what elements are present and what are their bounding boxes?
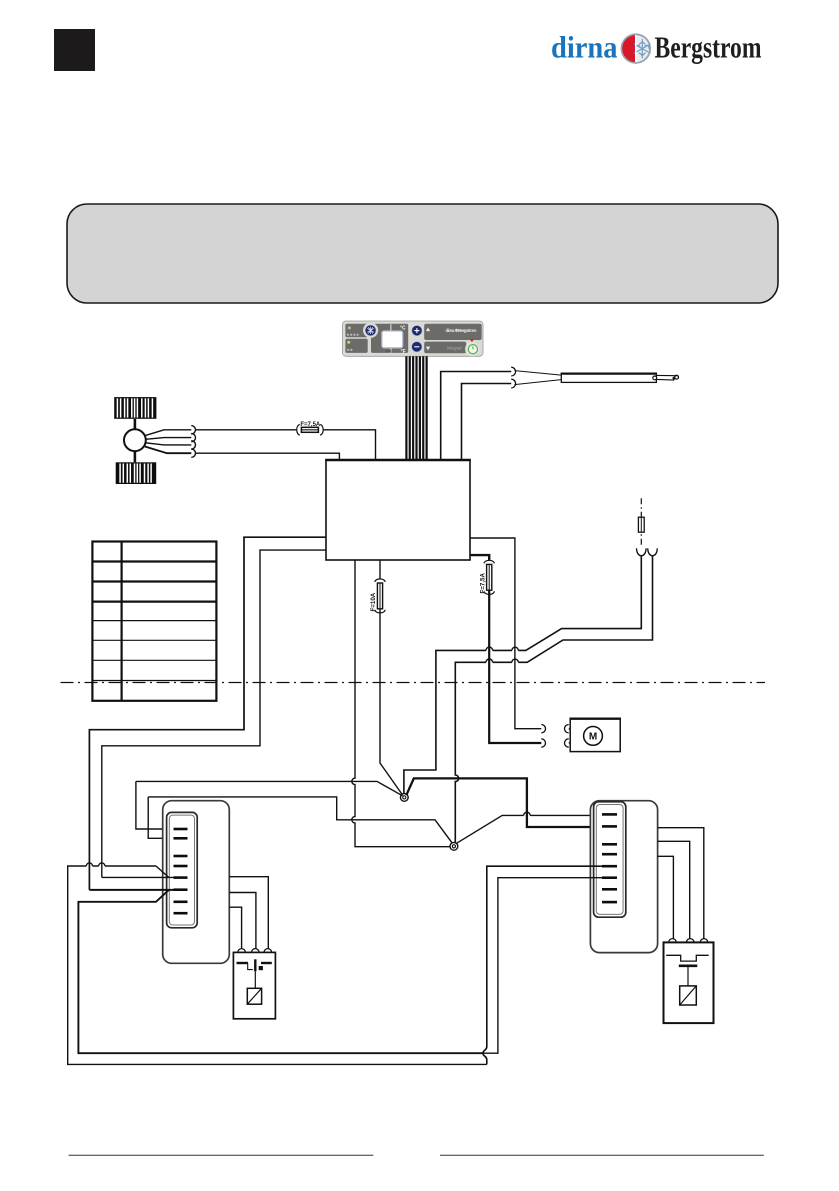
svg-text:M: M: [589, 732, 597, 743]
svg-text:°C: °C: [400, 326, 406, 332]
svg-text:dirna ❄Bergstrom: dirna ❄Bergstrom: [446, 328, 477, 333]
wire unit-right to motor1: [470, 538, 541, 729]
pins X1: [174, 829, 188, 913]
wire ground bus outer: [68, 866, 487, 1064]
svg-text:dirna: dirna: [551, 30, 618, 65]
pins X2: [602, 814, 617, 902]
wire unit-left B: [102, 550, 326, 877]
wire panel bundle: [406, 356, 426, 460]
wire battery2 to node B: [455, 556, 652, 842]
connector motor2: [541, 739, 568, 747]
wire left to node A: [136, 781, 403, 795]
page number box: [54, 29, 95, 71]
wire unit-bottom to node B: [352, 560, 450, 847]
node A: [400, 794, 408, 802]
wire X1 pin5: [102, 876, 174, 878]
wire X2 to K2 c2: [658, 841, 690, 938]
blower motor circle: [134, 419, 137, 430]
wire X2 to K2 c1: [658, 856, 674, 938]
wire X1 to K1 c1: [229, 907, 241, 949]
wire fan3 stub: [146, 443, 192, 445]
battery supply line: [640, 498, 642, 547]
wire X1 to K1 c3: [229, 877, 268, 949]
svg-text:Integral: Integral: [447, 346, 463, 352]
fuse F3 F=7,5A: [479, 560, 494, 594]
svg-text:F=7,5A: F=7,5A: [479, 573, 486, 594]
wire probe1: [441, 372, 512, 461]
connector motor1: [541, 725, 568, 733]
motor M: [570, 719, 621, 752]
chassis dash-dot line: [61, 682, 766, 684]
blower resistor bottom: [116, 462, 157, 484]
wire node A to right block pin2: [406, 778, 603, 827]
wire left to node B: [148, 797, 452, 843]
fuse F2 F=10A: [379, 560, 381, 579]
fuse F4: [638, 517, 644, 532]
wire X1 to K1 c2: [229, 893, 256, 949]
logo circle: [622, 34, 651, 63]
svg-text:F=7,5A: F=7,5A: [300, 422, 321, 428]
footer rule left: [69, 1154, 374, 1156]
wire unit-right to fuse F3: [470, 555, 489, 560]
wire node B to right block pin1: [456, 815, 603, 843]
wire fuse F3 to motor2: [489, 590, 541, 743]
fuse F1 F=7,5A: [297, 422, 324, 435]
connector block X1: [163, 801, 230, 964]
svg-text:°F: °F: [401, 349, 406, 355]
svg-text:F=10A: F=10A: [370, 592, 377, 611]
wire battery1 to node A: [404, 556, 641, 793]
wire fan4 to unit: [145, 447, 191, 454]
node B: [450, 842, 458, 850]
wire bus1 to X2 pin6: [483, 878, 603, 1053]
wire bus2 to X2 pin5: [483, 866, 603, 1064]
control panel U1: [343, 321, 484, 356]
relay K1: [233, 949, 275, 1019]
wire fan1 to fuse F1: [145, 430, 191, 436]
wire probe2: [462, 384, 512, 461]
control unit box: [326, 460, 470, 560]
temperature probe: [515, 371, 679, 385]
wire fuse F2 to node A: [380, 609, 402, 795]
wire fan2 stub: [146, 438, 192, 440]
footer rule right: [440, 1154, 764, 1156]
wire X1 pin6: [89, 889, 174, 891]
fuse table: [92, 542, 216, 701]
blower resistor top: [114, 397, 156, 419]
wire unit-left A: [89, 537, 326, 890]
wire fuse F1 to unit: [323, 430, 376, 460]
connector battery right: [648, 548, 658, 556]
title box: [67, 204, 778, 303]
connector battery left: [637, 548, 647, 556]
wire ground bus inner: [78, 890, 483, 1053]
svg-text:Bergstrom: Bergstrom: [655, 30, 762, 65]
connector block X2: [590, 801, 657, 953]
wire X2 to K2 c3: [658, 828, 704, 939]
relay K2: [664, 939, 714, 1024]
